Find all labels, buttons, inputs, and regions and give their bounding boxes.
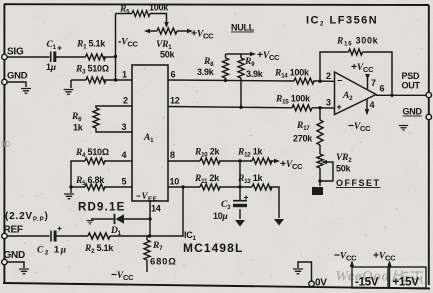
svg-text:MC1498L: MC1498L	[183, 241, 243, 255]
svg-text:OUT: OUT	[402, 81, 421, 91]
svg-text:50k: 50k	[160, 50, 176, 60]
svg-text:4: 4	[122, 150, 127, 160]
svg-text:4: 4	[370, 100, 375, 110]
svg-text:1k: 1k	[73, 123, 84, 133]
svg-text:IC2 LF356N: IC2 LF356N	[306, 15, 378, 28]
svg-text:GND: GND	[7, 71, 28, 82]
svg-text:-15V: -15V	[355, 277, 379, 289]
svg-text:C2 1μ: C2 1μ	[37, 245, 68, 257]
svg-text:PSD: PSD	[402, 71, 421, 81]
svg-text:50k: 50k	[336, 164, 352, 174]
svg-text:+: +	[337, 102, 342, 112]
svg-text:00: 00	[1, 140, 10, 149]
svg-text:3: 3	[326, 98, 331, 108]
svg-text:100k: 100k	[149, 3, 169, 13]
svg-text:10: 10	[170, 177, 180, 187]
svg-text:6: 6	[380, 84, 385, 94]
svg-text:OFFSET: OFFSET	[336, 178, 381, 188]
svg-text:+15V: +15V	[393, 277, 420, 289]
svg-text:2: 2	[326, 71, 331, 81]
svg-text:10μ: 10μ	[213, 211, 228, 222]
svg-text:1μ: 1μ	[46, 62, 56, 73]
svg-text:7: 7	[371, 78, 376, 88]
svg-text:14: 14	[151, 204, 161, 214]
svg-text:0V: 0V	[315, 278, 327, 289]
svg-text:1: 1	[122, 70, 127, 80]
svg-text:−: −	[337, 76, 342, 86]
svg-text:SIG: SIG	[7, 47, 24, 58]
svg-text:5: 5	[122, 177, 127, 187]
svg-text:6: 6	[171, 70, 176, 80]
svg-text:3.9k: 3.9k	[246, 69, 264, 79]
svg-text:2: 2	[123, 96, 128, 106]
svg-text:3.9k: 3.9k	[197, 67, 215, 77]
svg-text:RD9.1E: RD9.1E	[78, 202, 125, 214]
svg-text:NULL: NULL	[231, 23, 255, 33]
svg-text:680Ω: 680Ω	[150, 257, 177, 268]
svg-text:GND: GND	[403, 107, 423, 117]
svg-text:8: 8	[170, 150, 175, 160]
svg-text:270k: 270k	[293, 134, 313, 144]
svg-text:GND: GND	[4, 250, 26, 261]
svg-text:REF: REF	[4, 225, 23, 236]
svg-text:12: 12	[170, 96, 180, 106]
svg-text:3: 3	[122, 122, 127, 132]
